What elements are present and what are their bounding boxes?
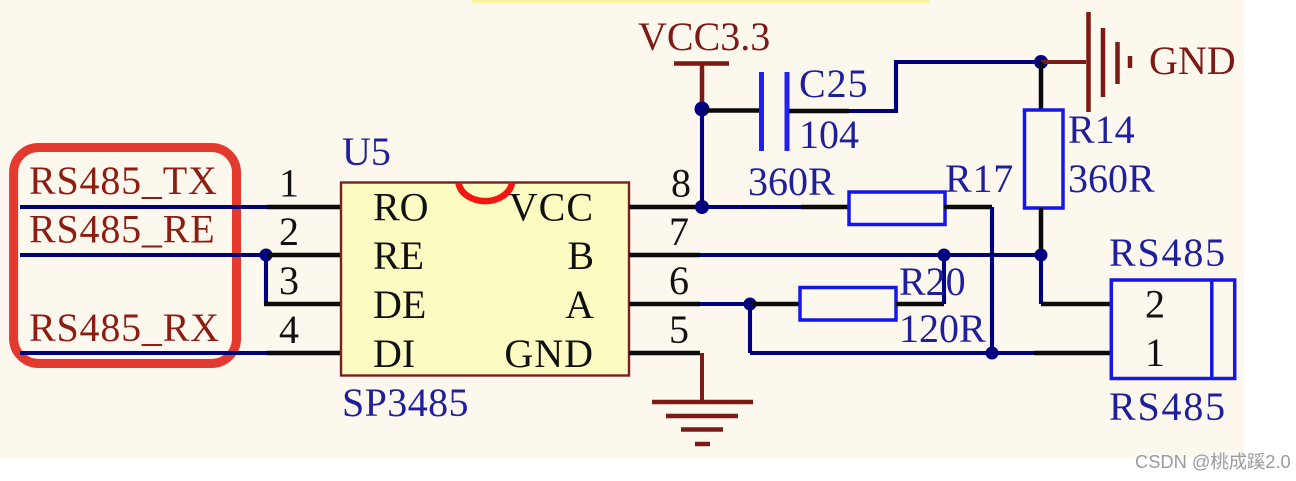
wire pin8 to R17 — [702, 205, 801, 209]
svg-text:VCC3.3: VCC3.3 — [638, 14, 770, 59]
svg-text:1: 1 — [1145, 330, 1165, 375]
pin 6 — [629, 258, 700, 304]
svg-text:RO: RO — [373, 185, 429, 230]
wire B down to connector — [1039, 255, 1043, 304]
svg-text:CSDN @桃成蹊2.0: CSDN @桃成蹊2.0 — [1135, 451, 1291, 472]
capacitor C25 lead right — [789, 109, 849, 114]
connector pin 1 lead — [1034, 351, 1112, 356]
svg-text:5: 5 — [669, 307, 689, 352]
wire B net — [700, 253, 1041, 257]
junction A/R20 — [744, 298, 757, 311]
wire A to connector — [750, 351, 1036, 355]
IC body U5 — [341, 183, 629, 376]
wire A net — [700, 302, 750, 306]
svg-text:DE: DE — [373, 282, 426, 327]
resistor R14 lead top — [1039, 62, 1044, 110]
wire RE to DE — [264, 255, 268, 304]
svg-text:VCC: VCC — [509, 185, 594, 230]
junction B/R14 — [1035, 249, 1048, 262]
power port GND top — [1041, 12, 1236, 112]
svg-text:2: 2 — [279, 209, 299, 254]
svg-text:U5: U5 — [342, 129, 391, 174]
wire RS485_RX — [20, 351, 267, 355]
svg-text:7: 7 — [669, 209, 689, 254]
wire A down — [748, 304, 752, 353]
wire C25 to GND node — [849, 62, 1041, 111]
junction VCC/C25 — [695, 102, 710, 117]
svg-text:360R: 360R — [748, 159, 835, 204]
resistor R20 lead right — [896, 302, 944, 307]
wire R17 down to A net — [990, 207, 994, 353]
svg-text:RS485: RS485 — [1109, 384, 1227, 429]
pin 3 — [264, 258, 341, 304]
junction A/R17 — [986, 347, 999, 360]
pin 7 — [629, 209, 700, 255]
svg-text:GND: GND — [504, 331, 594, 376]
resistor R20 lead left — [750, 302, 801, 307]
svg-text:4: 4 — [279, 307, 299, 352]
resistor R17 lead right — [944, 205, 992, 210]
svg-text:6: 6 — [669, 258, 689, 303]
svg-text:B: B — [567, 233, 594, 278]
svg-text:R14: R14 — [1068, 107, 1135, 152]
connector pin 2 lead — [1041, 302, 1112, 307]
junction B/R20 — [938, 249, 951, 262]
resistor R17 lead left — [801, 205, 850, 210]
pin 2 — [267, 209, 341, 255]
svg-text:104: 104 — [799, 112, 859, 157]
svg-text:360R: 360R — [1068, 156, 1155, 201]
svg-text:120R: 120R — [899, 306, 986, 351]
svg-text:R17: R17 — [945, 156, 1014, 201]
pin 4 — [267, 307, 341, 353]
wire RS485_TX — [20, 205, 267, 209]
pin 8 — [629, 161, 700, 208]
svg-text:2: 2 — [1145, 282, 1165, 327]
resistor R20 body — [800, 288, 896, 321]
capacitor C25 lead left — [706, 108, 759, 113]
pin 5 — [629, 307, 700, 353]
svg-text:RS485_TX: RS485_TX — [29, 158, 218, 203]
wire R20 up to B — [942, 255, 946, 304]
svg-text:RS485_RE: RS485_RE — [29, 207, 215, 252]
power port VCC3.3 — [638, 14, 770, 106]
IC notch arc — [459, 183, 513, 201]
clipped yellow part at sheet top — [472, 0, 930, 3]
resistor R17 body — [849, 192, 945, 225]
connector body — [1111, 280, 1234, 379]
svg-text:8: 8 — [671, 161, 691, 206]
svg-text:3: 3 — [279, 258, 299, 303]
capacitor C25 plates — [762, 72, 788, 151]
pin 1 — [267, 161, 341, 208]
junction RE/DE — [260, 249, 273, 262]
resistor R14 body — [1025, 110, 1064, 208]
wire RS485_RE — [20, 253, 266, 257]
svg-text:DI: DI — [373, 331, 415, 376]
resistor R14 lead bottom — [1039, 208, 1044, 255]
wire VCC down to pin8 — [700, 109, 704, 207]
power port GND bottom — [652, 353, 753, 444]
svg-text:RS485: RS485 — [1109, 230, 1227, 275]
svg-text:SP3485: SP3485 — [342, 380, 469, 425]
svg-text:RE: RE — [373, 233, 424, 278]
red annotation frame — [14, 148, 237, 364]
svg-text:A: A — [565, 282, 594, 327]
svg-text:1: 1 — [279, 161, 299, 206]
svg-text:R20: R20 — [899, 259, 966, 304]
svg-text:GND: GND — [1149, 38, 1236, 83]
svg-text:C25: C25 — [799, 61, 869, 106]
svg-text:RS485_RX: RS485_RX — [29, 305, 220, 350]
junction GND node — [1034, 55, 1048, 69]
junction pin8 — [695, 200, 709, 214]
